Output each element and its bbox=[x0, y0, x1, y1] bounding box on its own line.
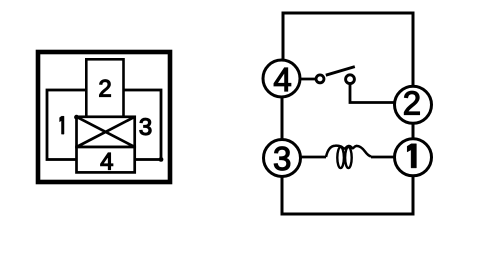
wire top bbox=[283, 13, 413, 85]
terminal 4 box bbox=[77, 147, 135, 172]
svg-text:4: 4 bbox=[100, 148, 113, 175]
svg-text:4: 4 bbox=[273, 61, 291, 98]
relay outer case bbox=[38, 52, 170, 182]
wire switch to terminal 2 bbox=[350, 85, 395, 103]
terminal circle 4 bbox=[263, 60, 300, 97]
switch blade bbox=[326, 67, 355, 76]
junction dot left bbox=[74, 115, 79, 120]
terminal circle 3 bbox=[264, 140, 301, 177]
svg-text:2: 2 bbox=[98, 75, 111, 102]
junction dot right bbox=[159, 157, 164, 162]
coil loop B bbox=[345, 147, 352, 168]
crossed keyway box bbox=[77, 117, 135, 147]
label terminal 1 bbox=[407, 144, 416, 168]
terminal circle 2 bbox=[395, 86, 432, 123]
label pin 1 bbox=[60, 116, 64, 134]
terminal 2 box bbox=[86, 59, 123, 117]
wire left middle bbox=[281, 97, 284, 140]
keyway X diagonal 1 bbox=[77, 117, 135, 147]
wire switch feed bbox=[300, 78, 317, 81]
coil loop A bbox=[337, 147, 344, 168]
svg-text:3: 3 bbox=[273, 140, 291, 177]
svg-text:3: 3 bbox=[139, 114, 152, 141]
switch pivot contact bbox=[316, 75, 324, 83]
svg-text:2: 2 bbox=[403, 85, 421, 122]
switch fixed contact bbox=[346, 75, 355, 84]
wire right middle bbox=[412, 123, 415, 139]
wire bottom bbox=[282, 176, 413, 214]
terminal circle 1 bbox=[395, 139, 432, 176]
coil winding bbox=[326, 146, 371, 157]
wire coil right bbox=[371, 156, 395, 159]
keyway X diagonal 2 bbox=[77, 117, 135, 147]
terminal 1-3 wide box bbox=[47, 90, 161, 160]
wire coil left bbox=[301, 156, 327, 159]
